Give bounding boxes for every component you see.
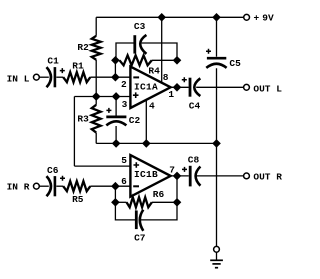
- svg-text:R2: R2: [77, 42, 89, 53]
- svg-text:C5: C5: [229, 58, 241, 69]
- svg-text:4: 4: [149, 101, 155, 112]
- node ground bus right junction: [213, 140, 220, 147]
- wire R6 right lead: [152, 201, 177, 203]
- wire IC1A output: [171, 86, 189, 88]
- svg-text:C4: C4: [189, 100, 201, 111]
- svg-text:C7: C7: [134, 233, 146, 244]
- svg-text:5: 5: [121, 155, 127, 166]
- wire ground bus: [96, 142, 216, 144]
- wire C2 bottom lead: [115, 126, 117, 143]
- wire feedback drop to pin 2 node: [114, 60, 116, 77]
- node C2 top junction: [113, 93, 120, 100]
- node rail C5 junction: [213, 14, 220, 21]
- capacitor C8: [182, 154, 200, 186]
- wire R2 top lead: [95, 17, 97, 36]
- svg-text:R4: R4: [148, 65, 160, 76]
- node IC1A output junction: [174, 84, 181, 91]
- op-amp IC1A: [130, 67, 170, 108]
- svg-text:7: 7: [169, 164, 175, 175]
- node R6 C7 left: [112, 199, 119, 206]
- resistor R3: [77, 105, 100, 133]
- capacitor C1: [47, 56, 65, 88]
- wire R2 bottom lead to divider node: [95, 60, 97, 97]
- capacitor C6: [47, 165, 66, 196]
- svg-text:R3: R3: [77, 113, 89, 124]
- svg-text:IC1A: IC1A: [134, 82, 158, 93]
- wire pin 4: [145, 100, 147, 144]
- wire C2 top lead: [115, 97, 117, 116]
- wire bias drop to IC1B: [73, 97, 75, 167]
- capacitor C4: [182, 77, 201, 111]
- resistor R5: [63, 181, 90, 205]
- svg-text:R6: R6: [153, 189, 165, 200]
- wire R3 bottom lead: [95, 133, 97, 144]
- wire R4 left lead: [115, 59, 119, 61]
- wire R1 to pin 2: [90, 76, 130, 78]
- capacitor C2: [106, 108, 140, 126]
- svg-text:C8: C8: [188, 154, 200, 165]
- wire C3 right hook: [142, 43, 177, 60]
- svg-text:C6: C6: [47, 165, 59, 176]
- svg-text:3: 3: [122, 99, 128, 110]
- svg-text:+: +: [254, 13, 260, 24]
- node IN R terminal: [34, 183, 40, 189]
- svg-text:IC1B: IC1B: [134, 169, 158, 180]
- resistor R4: [120, 55, 161, 76]
- node IN L terminal: [34, 74, 40, 80]
- svg-text:C3: C3: [134, 21, 146, 32]
- svg-text:6: 6: [121, 176, 127, 187]
- wire feedback drop IC1B: [114, 186, 116, 202]
- node OUT R terminal: [244, 173, 250, 179]
- wire R3 top lead: [95, 97, 97, 105]
- op-amp IC1B: [130, 155, 170, 197]
- capacitor C3: [134, 21, 147, 54]
- node OUT L terminal: [244, 84, 250, 90]
- wire +9V top rail: [96, 16, 244, 18]
- svg-text:IN L: IN L: [7, 74, 30, 85]
- node pin6 junction: [112, 183, 119, 190]
- svg-text:1: 1: [168, 89, 174, 100]
- wire R4 right lead: [152, 59, 177, 61]
- resistor R2: [77, 36, 100, 60]
- svg-text:OUT R: OUT R: [253, 172, 282, 183]
- node C2 ground junction: [113, 140, 120, 147]
- wire C3 left hook: [116, 43, 134, 60]
- wire C6 to R5: [56, 185, 63, 187]
- node R4 C3 left: [112, 57, 119, 64]
- svg-text:C2: C2: [129, 115, 141, 126]
- node +9V terminal: [244, 14, 250, 20]
- node R4 C3 right: [174, 57, 181, 64]
- wire pin 5: [74, 165, 130, 167]
- wire C7 left hook: [115, 202, 135, 220]
- node rail pin8 junction: [158, 14, 165, 21]
- wire IC1B output drop: [176, 176, 178, 202]
- resistor R1: [63, 61, 90, 83]
- capacitor C5: [206, 17, 241, 69]
- svg-text:R1: R1: [72, 61, 84, 72]
- wire C4 to OUT L: [196, 86, 244, 88]
- wire R6 left lead: [115, 201, 126, 203]
- svg-text:C1: C1: [47, 56, 59, 67]
- capacitor C7: [134, 210, 146, 244]
- wire C8 to OUT R: [196, 175, 243, 177]
- node pin4 ground junction: [143, 140, 150, 147]
- svg-text:R5: R5: [72, 194, 84, 205]
- ground: [210, 246, 223, 267]
- svg-text:2: 2: [121, 79, 127, 90]
- wire pin 8: [161, 17, 163, 82]
- wire IN L to C1: [39, 76, 49, 78]
- node divider junction: [93, 93, 100, 100]
- wire IC1B output: [171, 175, 189, 177]
- node R6 C7 right: [174, 199, 181, 206]
- wire C7 right hook: [141, 202, 177, 220]
- svg-text:IN R: IN R: [7, 182, 30, 193]
- wire pin 3 bias: [74, 96, 130, 98]
- wire R5 to pin 6: [90, 185, 130, 187]
- wire IN R to C6: [39, 185, 49, 187]
- node pin2 junction: [112, 74, 119, 81]
- svg-text:8: 8: [163, 72, 169, 83]
- svg-text:OUT L: OUT L: [253, 83, 282, 94]
- svg-text:9V: 9V: [262, 13, 274, 24]
- node IC1B output junction: [174, 173, 181, 180]
- resistor R6: [127, 189, 165, 208]
- wire C1 to R1: [56, 76, 63, 78]
- wire C5 to ground: [216, 68, 218, 246]
